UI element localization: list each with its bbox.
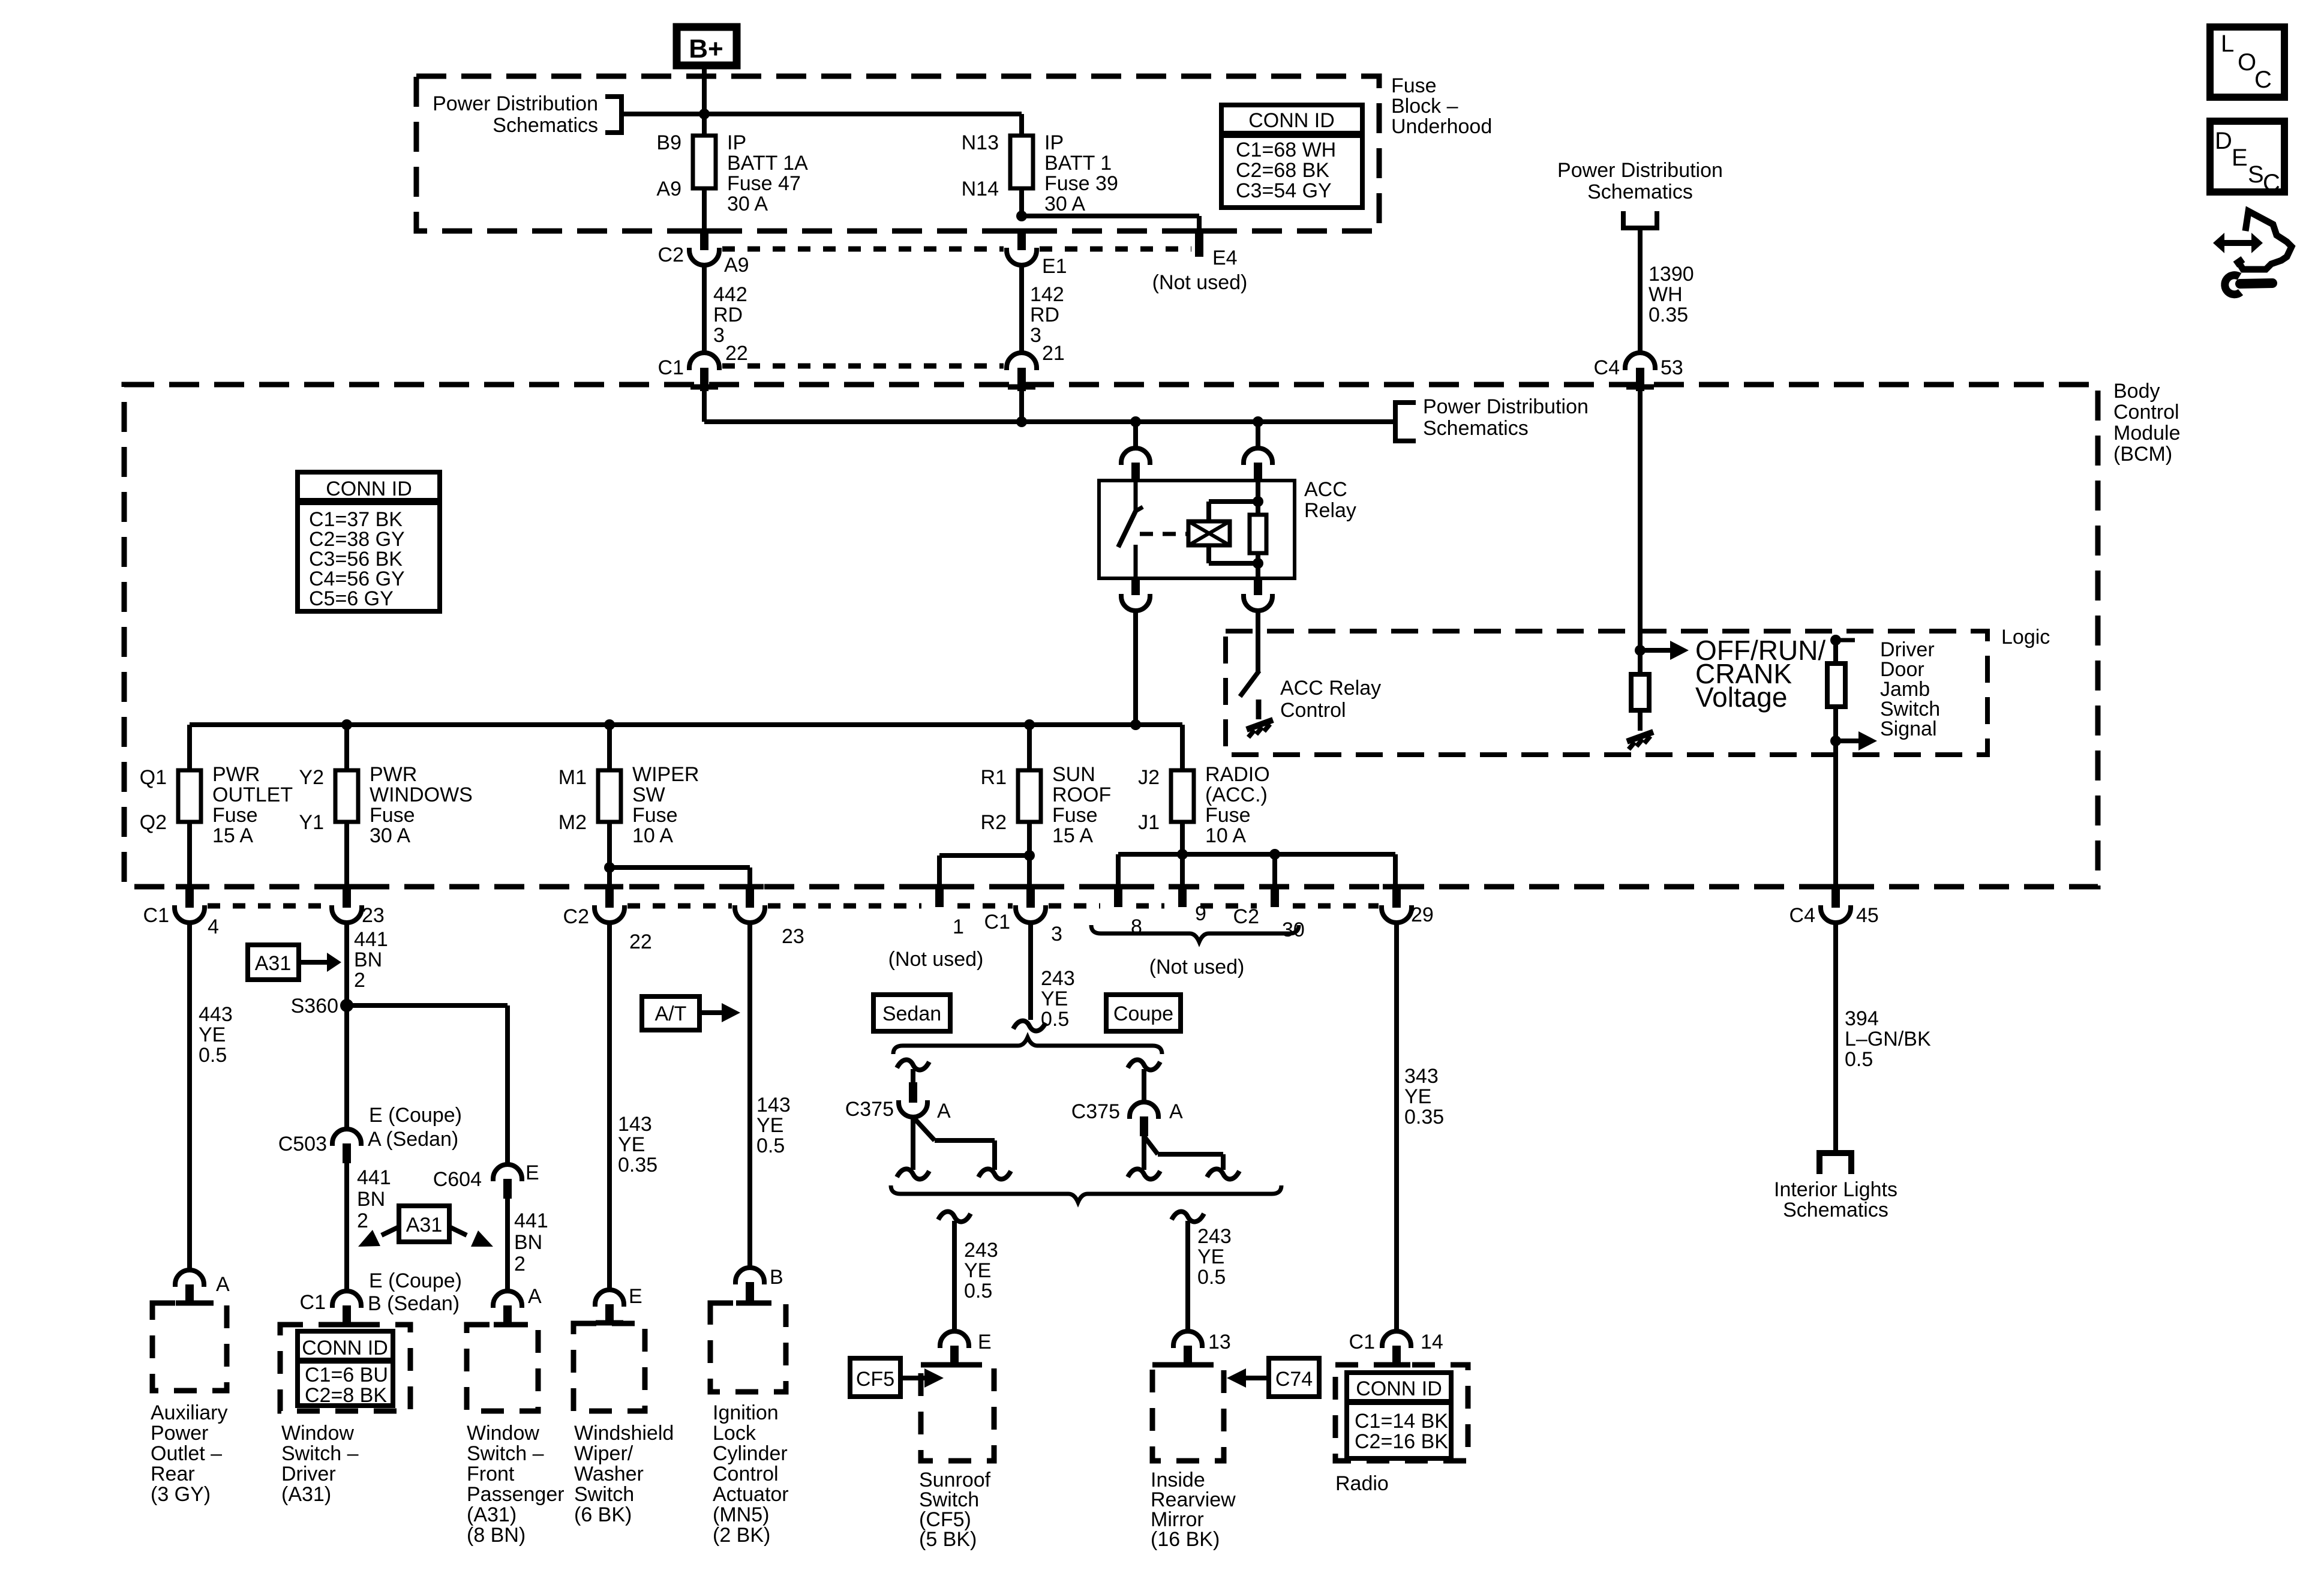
- svg-text:Block –: Block –: [1391, 95, 1458, 118]
- svg-text:ACC: ACC: [1304, 478, 1347, 501]
- label pin 21: [1042, 342, 1065, 365]
- wire 394 L-GN/BK: [1833, 923, 1838, 1153]
- wire J branch right: [1182, 854, 1395, 888]
- svg-text:C74: C74: [1275, 1368, 1313, 1391]
- svg-text:441: 441: [514, 1209, 548, 1232]
- bus wire y1208: [190, 725, 1182, 770]
- svg-text:(Not used): (Not used): [888, 948, 984, 971]
- ground off/run/crank: [1627, 732, 1653, 749]
- auxiliary power outlet box: [152, 1303, 227, 1391]
- wire off/run/crank voltage: [1638, 389, 1643, 674]
- svg-text:45: 45: [1856, 904, 1879, 927]
- svg-text:WINDOWS: WINDOWS: [370, 784, 473, 806]
- svg-text:0.5: 0.5: [964, 1280, 992, 1302]
- svg-text:394: 394: [1845, 1007, 1879, 1030]
- wire J branch left to pin8: [1118, 854, 1182, 888]
- label wire 243 YE 0.5 (sunroof): [964, 1239, 998, 1302]
- svg-text:142: 142: [1030, 283, 1064, 306]
- junction R2 branch: [1024, 850, 1035, 861]
- CF5 takeout box: [850, 1358, 944, 1397]
- svg-text:E: E: [978, 1331, 992, 1353]
- junction J1 branch: [1177, 849, 1188, 860]
- svg-text:D: D: [2215, 128, 2232, 154]
- wire 441 BN top: [344, 923, 349, 1128]
- stub C4/53 into BCM: [1626, 368, 1654, 391]
- label radio: [1335, 1472, 1389, 1495]
- label E4 not used: [1152, 271, 1248, 294]
- junction bus M1: [604, 719, 615, 730]
- svg-text:A: A: [937, 1100, 951, 1122]
- loc box: [2210, 27, 2284, 97]
- svg-text:Coupe: Coupe: [1113, 1002, 1173, 1025]
- A31 takeout box (mid): [358, 1206, 493, 1247]
- svg-text:Voltage: Voltage: [1695, 682, 1787, 713]
- svg-text:C1: C1: [1349, 1331, 1375, 1353]
- svg-text:CONN ID: CONN ID: [302, 1337, 388, 1359]
- svg-text:PWR: PWR: [212, 763, 260, 786]
- svg-text:Ignition: Ignition: [713, 1401, 779, 1424]
- svg-text:(8 BN): (8 BN): [467, 1524, 526, 1547]
- connector 8 not used: [1104, 887, 1142, 938]
- bracket power distribution schematics (mid right): [1395, 403, 1416, 441]
- resistor driver door jamb: [1827, 664, 1845, 707]
- svg-text:Switch –: Switch –: [467, 1442, 544, 1465]
- wire 1390 WH: [1638, 228, 1643, 354]
- stub C1/22 into BCM: [690, 368, 718, 391]
- svg-text:2: 2: [357, 1209, 368, 1232]
- svg-text:C2: C2: [658, 244, 684, 266]
- stub sedan C375: [909, 1082, 917, 1103]
- A31 takeout box (top): [248, 945, 341, 980]
- label E4: [1212, 247, 1238, 269]
- label C503 pins: [368, 1104, 462, 1151]
- svg-text:M1: M1: [559, 766, 587, 789]
- svg-text:Module: Module: [2113, 422, 2181, 445]
- ACC relay control switch blade: [1240, 671, 1259, 697]
- connector C1 pin 4: [143, 887, 219, 938]
- svg-text:IP: IP: [1044, 131, 1064, 154]
- svg-text:C2=68 BK: C2=68 BK: [1236, 159, 1329, 182]
- svg-text:R1: R1: [981, 766, 1007, 789]
- bracket interior lights schematics: [1819, 1153, 1851, 1174]
- wire M2 branch to 23b: [609, 867, 750, 888]
- wire bus to M1 fuse: [607, 725, 612, 770]
- wire M2 down: [607, 822, 612, 888]
- svg-text:Washer: Washer: [574, 1463, 644, 1485]
- label wire 441 BN 2 (mid): [357, 1166, 391, 1232]
- svg-text:Body: Body: [2113, 380, 2160, 403]
- label wire 243 YE 0.5 (mirror): [1197, 1225, 1232, 1289]
- relay output stub right: [1254, 578, 1262, 595]
- svg-text:3: 3: [1051, 923, 1062, 945]
- svg-text:Schematics: Schematics: [1783, 1199, 1888, 1221]
- wire jamb resistor down: [1833, 707, 1838, 887]
- label power distribution schematics (mid): [1423, 395, 1589, 440]
- wire to relay pin 2: [1256, 422, 1260, 449]
- connector C4 pin 45: [1789, 887, 1879, 927]
- fuse sun roof 15A: [981, 763, 1112, 847]
- connector 29: [1382, 887, 1434, 926]
- svg-text:C: C: [2263, 170, 2280, 196]
- squiggle mirror wire top: [1172, 1212, 1204, 1222]
- label logic: [2001, 626, 2050, 649]
- wire 143 YE 0.35: [607, 923, 612, 1290]
- coupe switch: [1144, 1136, 1223, 1170]
- label C2: [658, 244, 684, 266]
- junction relay feed right: [1253, 416, 1263, 427]
- dotted connector line C1 row: [722, 364, 1004, 369]
- label ACC relay control: [1280, 677, 1381, 722]
- label wire 1390 WH 0.35: [1649, 263, 1694, 326]
- squiggle sedan outputs: [897, 1169, 1011, 1179]
- label ignition lock cylinder control actuator: [713, 1401, 789, 1547]
- conn id table fuse block: [1221, 105, 1362, 208]
- svg-text:ACC Relay: ACC Relay: [1280, 677, 1381, 700]
- svg-text:Control: Control: [1280, 699, 1346, 722]
- svg-text:143: 143: [618, 1113, 652, 1136]
- svg-text:Window: Window: [467, 1422, 539, 1445]
- svg-text:(5 BK): (5 BK): [919, 1528, 977, 1551]
- wire to relay pin 1: [1133, 422, 1138, 449]
- svg-text:(ACC.): (ACC.): [1205, 784, 1268, 806]
- label fuse block - underhood: [1391, 74, 1492, 138]
- svg-text:Actuator: Actuator: [713, 1483, 789, 1506]
- relay pin stub right: [1254, 463, 1262, 481]
- svg-text:YE: YE: [756, 1114, 783, 1137]
- svg-text:Power Distribution: Power Distribution: [1557, 159, 1723, 182]
- svg-text:22: 22: [629, 930, 652, 953]
- svg-text:PWR: PWR: [370, 763, 417, 786]
- brace variant top: [893, 1037, 1162, 1054]
- wire R2 down: [1027, 822, 1032, 888]
- svg-text:2: 2: [354, 969, 365, 992]
- svg-text:13: 13: [1208, 1331, 1231, 1353]
- fuse block - underhood dashed box: [416, 76, 1379, 231]
- label windshield wiper washer switch: [574, 1422, 674, 1526]
- connector C2 pin 30 not used: [1233, 887, 1305, 941]
- bracket power distribution schematics (top left): [605, 97, 621, 133]
- connector C1 pin 22 dome: [689, 353, 719, 370]
- connector E sunroof dome: [940, 1331, 992, 1365]
- svg-text:RD: RD: [713, 304, 743, 326]
- svg-text:SUN: SUN: [1052, 763, 1095, 786]
- svg-text:C2: C2: [1233, 905, 1259, 928]
- svg-text:YE: YE: [1041, 987, 1068, 1010]
- svg-text:CONN ID: CONN ID: [326, 478, 412, 500]
- svg-text:(16 BK): (16 BK): [1151, 1528, 1220, 1551]
- svg-text:C1: C1: [658, 356, 684, 379]
- dotted connector line C2 row: [722, 247, 1191, 252]
- svg-text:E4: E4: [1212, 247, 1238, 269]
- svg-text:443: 443: [199, 1003, 233, 1026]
- windshield wiper box: [574, 1323, 645, 1411]
- svg-text:YE: YE: [1404, 1085, 1431, 1108]
- svg-text:Schematics: Schematics: [493, 114, 598, 137]
- ACC relay box: [1099, 481, 1295, 578]
- wire J1 down: [1180, 822, 1185, 888]
- svg-text:E (Coupe): E (Coupe): [369, 1104, 462, 1127]
- brace variant bottom: [891, 1185, 1281, 1202]
- relay pin stub left: [1131, 463, 1140, 481]
- label C375 sedan: [845, 1098, 951, 1122]
- feed wire y703: [704, 420, 1395, 422]
- svg-text:A: A: [528, 1285, 542, 1308]
- svg-text:R2: R2: [981, 811, 1007, 834]
- svg-text:Lock: Lock: [713, 1422, 756, 1445]
- svg-text:Signal: Signal: [1880, 718, 1937, 740]
- stub E1 through fuse block edge: [1008, 229, 1035, 250]
- svg-text:Switch –: Switch –: [281, 1442, 359, 1465]
- label sunroof switch: [919, 1469, 991, 1551]
- variant box sedan: [873, 995, 950, 1031]
- svg-text:53: 53: [1661, 356, 1683, 379]
- svg-text:C375: C375: [1071, 1100, 1120, 1123]
- wire B+ to fuse block: [702, 65, 707, 136]
- svg-text:4: 4: [208, 915, 219, 938]
- svg-text:Power: Power: [151, 1422, 208, 1445]
- label C503: [278, 1133, 327, 1155]
- svg-text:CONN ID: CONN ID: [1248, 109, 1335, 132]
- svg-text:E: E: [2232, 145, 2248, 171]
- window switch front passenger box: [467, 1325, 538, 1411]
- svg-text:A9: A9: [724, 254, 749, 277]
- wire 243 YE from C1/3: [1028, 923, 1033, 1020]
- wire Q2 to C1/4: [187, 822, 192, 888]
- svg-text:Fuse 47: Fuse 47: [727, 172, 801, 195]
- connector 23 (pwr windows): [332, 887, 385, 927]
- connector C1 pin 14 radio dome: [1349, 1331, 1443, 1365]
- connector C503 dome: [332, 1129, 361, 1163]
- stub C2 through fuse block edge: [690, 229, 718, 250]
- svg-text:C1: C1: [984, 911, 1010, 933]
- wire R2 branch to pin1: [939, 855, 1029, 888]
- svg-text:YE: YE: [618, 1133, 645, 1156]
- svg-text:Fuse: Fuse: [370, 804, 415, 827]
- label power distribution schematics (top right): [1557, 159, 1723, 203]
- svg-text:YE: YE: [964, 1259, 991, 1282]
- resistor off/run/crank: [1631, 674, 1649, 710]
- svg-text:Radio: Radio: [1335, 1472, 1389, 1495]
- svg-text:30 A: 30 A: [1044, 193, 1085, 215]
- svg-text:S: S: [2248, 161, 2264, 188]
- svg-text:Fuse: Fuse: [1205, 804, 1251, 827]
- wire bus to Y2 fuse: [344, 725, 349, 770]
- wire S360 branch to C604: [347, 1005, 508, 1164]
- bracket power distribution schematics (top right): [1623, 211, 1657, 228]
- connector 23 (wiper): [735, 887, 804, 948]
- svg-text:Sedan: Sedan: [882, 1002, 941, 1025]
- svg-text:B+: B+: [689, 34, 723, 64]
- label off/run/crank voltage: [1695, 635, 1825, 713]
- svg-text:243: 243: [1041, 967, 1075, 990]
- svg-text:Outlet –: Outlet –: [151, 1442, 222, 1465]
- label C4 (pin53): [1594, 356, 1620, 379]
- svg-text:3: 3: [713, 324, 725, 347]
- wire 243 YE sunroof: [952, 1221, 957, 1331]
- label wire 443 YE 0.5: [199, 1003, 233, 1067]
- relay coil bottom link: [1209, 545, 1263, 569]
- svg-text:C4: C4: [1789, 904, 1815, 927]
- connector C1 pin 3: [984, 887, 1062, 945]
- svg-text:(6 BK): (6 BK): [574, 1503, 632, 1526]
- svg-text:0.5: 0.5: [1197, 1266, 1226, 1289]
- power feed B+ terminal box: [677, 27, 737, 65]
- svg-text:L: L: [2221, 31, 2234, 57]
- svg-text:15 A: 15 A: [212, 824, 253, 847]
- label wire 394 L-GN/BK 0.5: [1845, 1007, 1931, 1071]
- svg-text:Q1: Q1: [140, 766, 167, 789]
- svg-text:C604: C604: [433, 1168, 482, 1191]
- svg-text:3: 3: [1030, 324, 1041, 347]
- svg-text:RD: RD: [1030, 304, 1059, 326]
- wire 443 YE: [187, 923, 192, 1269]
- label wire 143 YE 0.35: [618, 1113, 657, 1176]
- svg-text:30 A: 30 A: [370, 824, 410, 847]
- wire 343 YE: [1394, 923, 1399, 1331]
- svg-text:ROOF: ROOF: [1052, 784, 1111, 806]
- svg-text:B: B: [770, 1266, 783, 1289]
- wire 243 YE mirror: [1185, 1221, 1190, 1331]
- ignition lock box: [710, 1303, 786, 1392]
- svg-text:N13: N13: [962, 131, 999, 154]
- stub E4 not used: [1185, 231, 1213, 257]
- svg-text:(2 BK): (2 BK): [713, 1524, 770, 1547]
- svg-text:A: A: [1169, 1100, 1183, 1123]
- connector E wiper dome: [595, 1285, 642, 1323]
- dotted connector row bottom: [208, 903, 1379, 909]
- wire A9 fuse to C2 connector: [702, 188, 707, 235]
- wire relay coil to control: [1256, 611, 1260, 672]
- svg-text:Fuse: Fuse: [1391, 74, 1437, 97]
- junction J branch 30: [1269, 849, 1280, 860]
- connector C4 pin 53 dome: [1625, 353, 1655, 370]
- squiggle coupe outputs: [1128, 1169, 1239, 1179]
- label C1 (pin22): [658, 356, 684, 379]
- svg-text:(Not used): (Not used): [1152, 271, 1248, 294]
- splice S360: [291, 995, 353, 1017]
- svg-text:Passenger: Passenger: [467, 1483, 565, 1506]
- svg-text:Q2: Q2: [140, 811, 167, 834]
- wire sedan branch: [911, 1069, 915, 1082]
- wire from bracket to fuses (y190): [621, 112, 1022, 116]
- wire 143 YE 0.5: [747, 923, 752, 1267]
- svg-text:IP: IP: [727, 131, 746, 154]
- label driver door jamb switch signal: [1880, 638, 1940, 740]
- svg-text:BATT 1: BATT 1: [1044, 152, 1112, 175]
- junction off/run/crank: [1635, 645, 1646, 656]
- connector B ignition dome: [735, 1266, 783, 1303]
- connector C604 dome: [493, 1164, 522, 1199]
- label auxiliary power outlet rear: [151, 1401, 227, 1506]
- label pin A9: [724, 254, 749, 277]
- wire break squiggle top: [1013, 1021, 1046, 1031]
- connector 1 not used: [888, 887, 984, 971]
- svg-text:Control: Control: [2113, 401, 2179, 424]
- stub 21 into BCM: [1008, 368, 1035, 391]
- svg-text:C4: C4: [1594, 356, 1620, 379]
- svg-text:Schematics: Schematics: [1423, 417, 1529, 440]
- svg-text:21: 21: [1042, 342, 1065, 365]
- svg-text:Fuse: Fuse: [1052, 804, 1098, 827]
- arrow off/run/crank: [1640, 641, 1689, 660]
- relay coil top link: [1209, 496, 1263, 521]
- junction at 21 wire: [1016, 389, 1027, 427]
- conn id table window driver: [298, 1331, 393, 1407]
- relay pin dome right: [1244, 448, 1272, 465]
- label wire 441 BN 2 (top): [354, 928, 388, 992]
- svg-text:10 A: 10 A: [1205, 824, 1246, 847]
- svg-text:BN: BN: [357, 1188, 385, 1211]
- label wire 142 RD 3: [1030, 283, 1064, 347]
- svg-text:Schematics: Schematics: [1587, 181, 1693, 203]
- C74 takeout box: [1227, 1358, 1319, 1397]
- svg-text:Y2: Y2: [299, 766, 324, 789]
- logic dashed box: [1226, 631, 1987, 755]
- svg-text:C2: C2: [563, 905, 589, 928]
- svg-text:CF5: CF5: [856, 1368, 894, 1391]
- label ACC relay: [1304, 478, 1356, 522]
- connector 13 mirror dome: [1173, 1331, 1231, 1365]
- svg-text:Auxiliary: Auxiliary: [151, 1401, 227, 1424]
- svg-text:A/T: A/T: [655, 1002, 687, 1025]
- svg-text:WIPER: WIPER: [632, 763, 699, 786]
- squiggle sedan branch: [897, 1060, 929, 1070]
- svg-text:E: E: [629, 1285, 642, 1308]
- junction node below fuse 39: [1016, 211, 1027, 221]
- wire 442 RD: [702, 265, 707, 354]
- svg-text:29: 29: [1411, 903, 1434, 926]
- svg-text:Cylinder: Cylinder: [713, 1442, 788, 1465]
- navigation arrow wrench icon: [2213, 211, 2292, 295]
- connector A aux outlet dome: [175, 1270, 230, 1303]
- svg-text:Fuse: Fuse: [632, 804, 678, 827]
- svg-text:CONN ID: CONN ID: [1356, 1377, 1442, 1400]
- relay output cup right: [1244, 594, 1272, 611]
- wire 142 RD: [1019, 265, 1024, 354]
- svg-text:C: C: [2254, 67, 2272, 93]
- svg-text:BN: BN: [354, 948, 382, 971]
- svg-text:YE: YE: [199, 1023, 226, 1046]
- fuse pwr windows 30A: [299, 763, 472, 847]
- svg-text:441: 441: [357, 1166, 391, 1189]
- variant box coupe: [1106, 995, 1181, 1031]
- label inside rearview mirror: [1151, 1469, 1236, 1551]
- desc box: [2210, 121, 2284, 196]
- label driver window pins: [368, 1269, 462, 1315]
- svg-text:0.35: 0.35: [618, 1154, 657, 1176]
- svg-text:C375: C375: [845, 1098, 894, 1121]
- connector C375 sedan cup: [899, 1100, 927, 1117]
- svg-text:Logic: Logic: [2001, 626, 2050, 649]
- svg-text:C2=8 BK: C2=8 BK: [305, 1384, 387, 1407]
- svg-text:Window: Window: [281, 1422, 354, 1445]
- svg-text:A31: A31: [406, 1214, 443, 1236]
- svg-text:L–GN/BK: L–GN/BK: [1845, 1028, 1931, 1050]
- wire C604 to A: [505, 1199, 510, 1291]
- sunroof switch box: [921, 1365, 994, 1461]
- label wire 441 BN 2 (right): [514, 1209, 548, 1275]
- svg-text:30: 30: [1282, 918, 1305, 941]
- svg-text:243: 243: [964, 1239, 998, 1262]
- relay pin dome left: [1121, 448, 1150, 465]
- sedan switch: [913, 1117, 995, 1170]
- wire resistor to ground: [1638, 710, 1643, 731]
- svg-text:BATT 1A: BATT 1A: [727, 152, 808, 175]
- svg-text:442: 442: [713, 283, 747, 306]
- svg-text:C1: C1: [143, 904, 169, 927]
- svg-text:Relay: Relay: [1304, 499, 1356, 522]
- wire bus to R1 fuse: [1027, 725, 1032, 770]
